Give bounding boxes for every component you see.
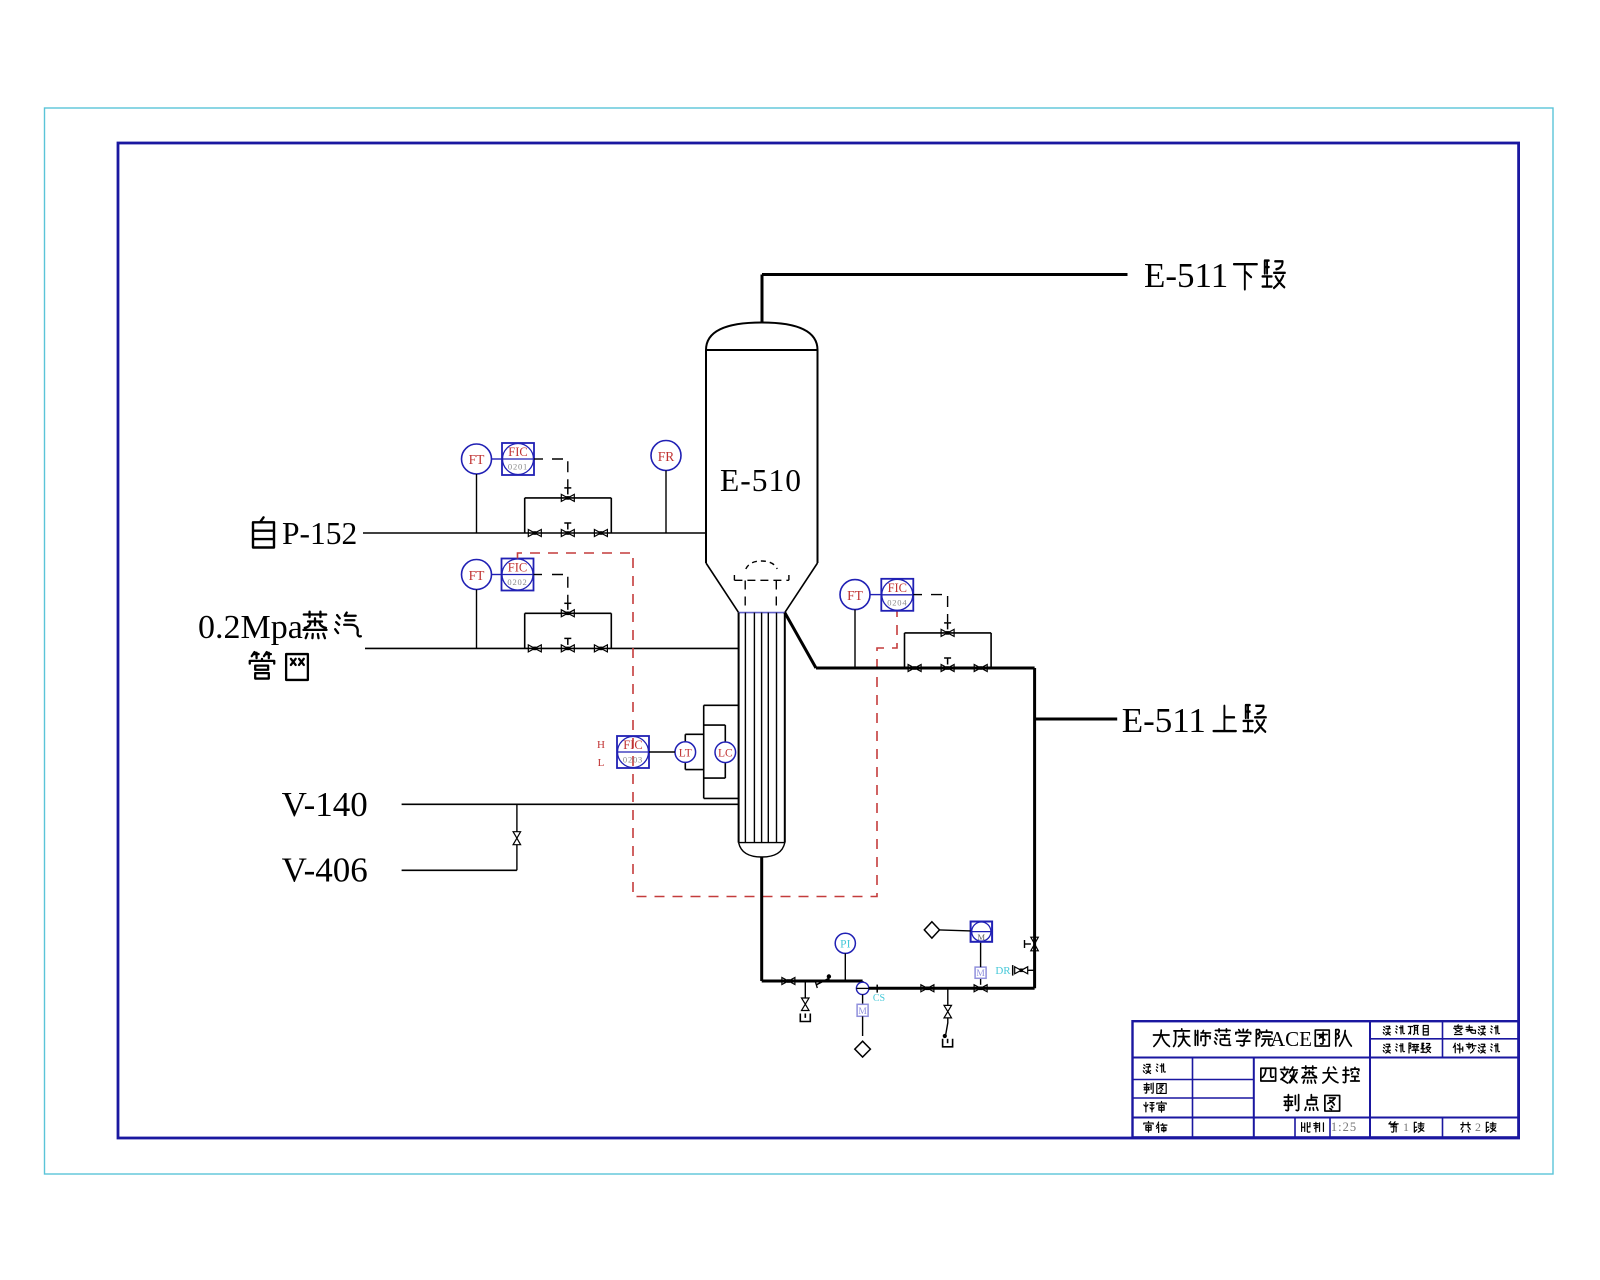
svg-text:1: 1: [1403, 1120, 1409, 1134]
vessel bottom head: [739, 843, 785, 857]
feed control manifold: [524, 498, 526, 533]
svg-text:H: H: [597, 739, 605, 751]
motor valve: [974, 985, 981, 992]
vent valve DR: [1012, 965, 1014, 976]
svg-text:FIC: FIC: [623, 738, 642, 752]
svg-text:DR: DR: [995, 965, 1011, 977]
valve on riser: [1031, 937, 1039, 944]
gate valve 2: [921, 985, 928, 992]
V-406 riser and valve: [516, 804, 518, 831]
solenoid instrument: [971, 922, 993, 942]
svg-text:FR: FR: [658, 449, 675, 464]
instrument FIC3 level: [617, 736, 649, 768]
svg-text:FIC: FIC: [888, 581, 907, 595]
svg-text:M: M: [976, 969, 985, 979]
entrainment separator (dashed): [746, 561, 777, 569]
signal FIC1 to valve: [552, 459, 568, 488]
svg-text:E-511: E-511: [1144, 256, 1228, 295]
pipe down to E-511 upper: [1033, 668, 1036, 988]
title small: design stage: [1383, 1044, 1390, 1053]
outlet diagonal: [785, 613, 816, 668]
svg-text:0201: 0201: [508, 462, 528, 472]
instrument FT1: [462, 444, 492, 474]
svg-text:FIC: FIC: [508, 445, 527, 459]
svg-text:2: 2: [1475, 1120, 1481, 1134]
sample branch: [862, 995, 864, 1005]
instrument FIC3a: [870, 594, 881, 596]
instrument FIC2: [492, 574, 502, 576]
svg-text:FT: FT: [847, 588, 864, 603]
drain branch 1: [804, 981, 806, 998]
vessel drain pipe: [760, 857, 763, 981]
LT taps: [684, 734, 686, 769]
title block grid: [1133, 1021, 1519, 1137]
feed pipe from P-152: [363, 532, 706, 534]
title small: sheet no: [1389, 1122, 1398, 1132]
title small: scale: [1302, 1123, 1311, 1133]
vapor outlet pipe: [761, 275, 764, 323]
title small: sheet total: [1461, 1122, 1470, 1132]
level bridle chamber: [703, 705, 705, 798]
pipe V-140: [402, 803, 739, 805]
svg-text:CS: CS: [873, 993, 885, 1004]
svg-text:M: M: [978, 932, 986, 942]
svg-text:LT: LT: [679, 748, 692, 760]
title: university team name: [1153, 1030, 1169, 1046]
title small: left rows: [1143, 1064, 1150, 1073]
signal loop (red dashed): [518, 553, 898, 897]
drain header right: [869, 987, 1035, 990]
spec break tick: [876, 985, 878, 993]
cyan outer border: [45, 108, 1554, 1174]
pipe to E-511 lower section: [762, 273, 1128, 276]
svg-text:1:25: 1:25: [1331, 1120, 1357, 1134]
vessel E-510 shell: [705, 350, 707, 563]
svg-text:FT: FT: [469, 452, 486, 467]
pipe V-406: [402, 869, 517, 871]
svg-text:PI: PI: [840, 939, 850, 951]
svg-text:ACE: ACE: [1270, 1027, 1312, 1051]
steam pipe: [365, 647, 739, 649]
svg-text:E-510: E-510: [720, 463, 802, 498]
signal FIC2 to valve: [552, 575, 568, 603]
label from P-152: [253, 517, 274, 547]
svg-text:0.2Mpa: 0.2Mpa: [198, 609, 303, 646]
svg-text:FT: FT: [469, 568, 486, 583]
instrument FT2: [462, 560, 492, 590]
check valve: [816, 978, 828, 984]
drain branch 2: [947, 988, 949, 1005]
instrument PI: [835, 933, 855, 953]
LC standpipe: [724, 725, 726, 778]
svg-text:V-406: V-406: [282, 851, 368, 890]
svg-text:V-140: V-140: [282, 785, 368, 824]
tube sheet line (blue): [739, 612, 785, 614]
vessel E-510 dome: [706, 323, 818, 351]
svg-text:0202: 0202: [507, 577, 527, 587]
signal FIC3 to valve: [931, 595, 948, 623]
svg-text:FIC: FIC: [508, 561, 527, 575]
svg-text:P-152: P-152: [282, 516, 357, 551]
outlet pipe to manifold: [816, 667, 1035, 670]
instrument LT: [675, 742, 696, 763]
svg-text:0203: 0203: [623, 755, 643, 765]
tube bundle: [738, 613, 740, 843]
instrument LC: [715, 742, 736, 763]
instrument FR: [651, 441, 681, 471]
navy drawing border: [118, 143, 1519, 1138]
drain header left: [762, 980, 863, 983]
pipe to E-511 upper: [1035, 718, 1118, 721]
outlet control manifold: [904, 633, 906, 668]
sample point: [862, 981, 864, 982]
instrument FIC1: [492, 458, 503, 460]
gate valve 1: [782, 978, 789, 985]
svg-text:M: M: [858, 1007, 867, 1017]
title small: design project: [1383, 1026, 1390, 1035]
svg-text:LC: LC: [718, 748, 733, 760]
steam control manifold: [524, 613, 526, 648]
svg-text:L: L: [598, 757, 605, 769]
svg-text:E-511: E-511: [1122, 701, 1206, 740]
svg-text:0204: 0204: [887, 597, 907, 607]
title: drawing name: [1261, 1068, 1276, 1081]
instrument FT3: [840, 580, 870, 610]
interlock diamond: [924, 922, 939, 938]
